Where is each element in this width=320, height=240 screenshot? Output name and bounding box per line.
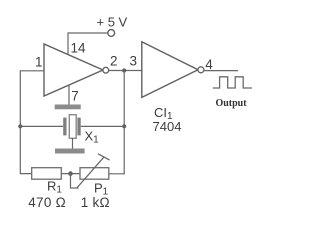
svg-text:+ 5 V: + 5 V (97, 15, 128, 30)
+5V terminal circle (108, 30, 115, 37)
wire: wiper connection to junction (71, 174, 79, 188)
wire: left line to crystal (20, 125, 63, 127)
wire: pin 7 to ground (68, 86, 70, 105)
svg-text:14: 14 (71, 41, 87, 56)
resistor R1 box (32, 168, 62, 180)
P1 arrow crossbar (98, 154, 110, 160)
inverter bubble pin 4 (198, 67, 204, 73)
svg-text:Output: Output (215, 98, 247, 109)
wire: crystal right to feedback line (81, 125, 125, 127)
P1 wiper diagonal arrow (77, 157, 104, 188)
ground (bar under pin 7) (55, 105, 81, 110)
node: junction pin2/feedback (122, 68, 126, 72)
potentiometer P1 box (80, 168, 109, 180)
svg-text:2: 2 (110, 54, 118, 69)
svg-text:4: 4 (205, 57, 213, 72)
crystal X1 body (69, 115, 76, 139)
wire: crystal case ground stub (72, 138, 74, 149)
wire: pin2 to pin3 (109, 70, 142, 72)
node: left junction (18, 124, 22, 128)
svg-text:470 Ω: 470 Ω (28, 195, 66, 210)
svg-text:7: 7 (71, 89, 79, 104)
ground (bar under crystal) (55, 149, 85, 154)
svg-text:3: 3 (130, 54, 138, 69)
crystal X1 left plate (63, 118, 66, 136)
svg-text:1: 1 (35, 55, 43, 70)
node: R1/P1 junction (68, 171, 73, 176)
wire: R1 to P1 (61, 173, 80, 175)
inverter CI1a triangle (44, 44, 103, 96)
wire: pin1 input + left feedback line + bottom wire to R1 (20, 71, 44, 174)
svg-text:7404: 7404 (153, 119, 182, 134)
wire: output (204, 70, 238, 72)
crystal X1 right plate (77, 118, 80, 136)
wire: P1 right stub (109, 173, 125, 175)
wire: pin 14 to +5V (68, 33, 108, 55)
node: junction crystal/right line (122, 124, 126, 128)
square wave symbol (213, 77, 252, 88)
inverter bubble pin 2 (103, 67, 109, 73)
inverter CI1b triangle (142, 42, 198, 98)
wire: right feedback line (123, 71, 125, 174)
svg-text:1 kΩ: 1 kΩ (81, 195, 110, 210)
